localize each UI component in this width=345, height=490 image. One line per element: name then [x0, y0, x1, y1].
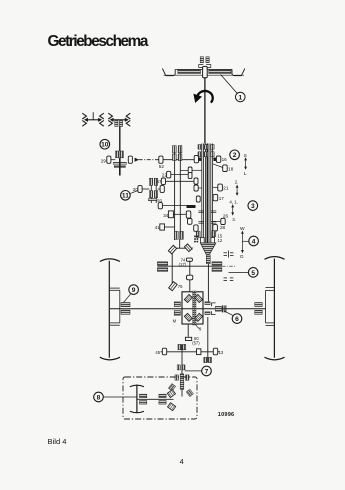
selector square 34 — [168, 211, 173, 218]
svg-text:41: 41 — [155, 225, 161, 230]
shafts — [150, 178, 152, 203]
bundle shaft lines — [201, 144, 203, 244]
svg-text:10996: 10996 — [218, 412, 235, 418]
beam top line — [176, 68, 233, 70]
joint B right arrowhead — [125, 118, 129, 122]
rotation arrow — [197, 91, 213, 103]
right lower shaft — [207, 317, 209, 363]
shaft below diff — [187, 324, 189, 337]
PTO bevel lower — [167, 403, 175, 411]
wire row a — [180, 169, 188, 171]
circled 6 — [232, 314, 242, 324]
end bracket left — [162, 69, 175, 76]
joint B chevron right bottom — [126, 120, 130, 126]
right wheel tyre — [265, 257, 285, 360]
sleeve 45 — [162, 348, 166, 355]
left sleeve row b — [188, 173, 192, 179]
joint A shaft — [86, 119, 101, 121]
sleeve mid left c — [194, 225, 198, 231]
svg-text:52: 52 — [159, 164, 165, 169]
axle line — [110, 308, 266, 310]
gear right of bundle bottom — [212, 231, 216, 237]
input coupling hatched blocks — [200, 57, 203, 63]
callout 9 — [124, 294, 132, 303]
gear pair D — [175, 375, 178, 380]
circled 3 — [248, 201, 258, 211]
svg-text:3.: 3. — [232, 217, 236, 222]
wire 26 — [213, 220, 221, 222]
sleeve left of cluster 10 — [107, 156, 111, 163]
diff clutch block on axle — [215, 306, 221, 311]
vert shaft stub in box — [181, 389, 183, 396]
sleeve 28 — [213, 225, 218, 231]
arrowhead on PTO line — [135, 158, 139, 162]
bundle tick bars — [198, 210, 204, 212]
diff bevel TL — [184, 295, 192, 303]
sleeve 18 — [223, 165, 228, 172]
PTO dash-dot extension — [222, 265, 236, 267]
bundle top gear rects row1 — [198, 145, 202, 150]
gears row2 — [149, 191, 152, 198]
joint A chevron left top — [82, 113, 86, 119]
dash clutch upper — [224, 251, 234, 258]
bundle top gear rects row2 — [198, 152, 202, 157]
svg-text:(17): (17) — [179, 262, 187, 267]
PTO gear left upper — [157, 262, 167, 265]
layshaft A — [174, 150, 176, 240]
shaft down from joint B — [119, 126, 121, 151]
wire to circle 4 — [242, 240, 249, 242]
sleeve right of cluster 11 — [160, 186, 164, 193]
wire cluster to right sleeve — [158, 188, 160, 190]
PTO horizontal shaft — [137, 398, 174, 400]
thick hatched shaft — [180, 374, 184, 389]
circled 5 — [248, 268, 258, 278]
PTO gear right upper — [212, 262, 222, 265]
left axle gear lower — [121, 310, 130, 314]
PTO gear right lower — [212, 268, 222, 272]
svg-text:G: G — [240, 254, 244, 260]
gear left of bundle bottom — [196, 231, 200, 237]
layshaft lower gear pair — [175, 231, 179, 239]
bevel right of T — [184, 244, 192, 252]
sleeve mid left b — [188, 219, 193, 225]
diff clutch plate pack — [222, 305, 227, 312]
wire 20 to cluster — [142, 188, 149, 190]
wire to circle 7 — [185, 370, 202, 372]
left axle gear upper — [121, 303, 130, 307]
joint B chevron left top — [108, 113, 112, 119]
svg-text:8: 8 — [97, 395, 101, 402]
sleeve 21 — [218, 184, 223, 191]
PTO stub shaft — [136, 385, 138, 413]
wire 52 to bundle — [163, 159, 194, 161]
dotted clutch 15 12 — [194, 236, 198, 243]
sleeve on diff input — [187, 275, 193, 280]
svg-text:M: M — [173, 319, 177, 324]
svg-text:51: 51 — [157, 198, 163, 203]
left diff gear lower — [174, 311, 180, 316]
svg-text:34: 34 — [163, 213, 169, 218]
diff clutch hatched small upper — [205, 302, 210, 305]
PTO bevel upper — [167, 390, 175, 398]
PTO gear a lower — [140, 401, 147, 405]
bearing rects above cone — [201, 237, 205, 243]
pinion hatched stub — [206, 255, 210, 264]
sleeve right of cluster 10 — [128, 156, 132, 163]
svg-text:6: 6 — [235, 316, 239, 323]
left lower shaft — [181, 345, 183, 375]
beam bottom line — [164, 74, 245, 76]
sleeve 52 — [159, 156, 163, 163]
diff clutch hatched small lower — [205, 312, 210, 315]
circled 4 — [249, 236, 259, 246]
wire bevel to bevel 75 — [171, 253, 173, 283]
sleeve 16 — [216, 156, 220, 162]
bevel gear 75 — [169, 282, 178, 291]
circled 11 — [121, 191, 131, 201]
circled 10 — [100, 139, 110, 149]
layshaft top gears row1 — [173, 146, 177, 153]
joint B shaft — [111, 119, 128, 121]
svg-text:(57): (57) — [192, 341, 200, 346]
callout 6 — [224, 311, 234, 316]
sleeve 21 wire — [213, 187, 218, 189]
circled 1 — [236, 92, 246, 102]
svg-text:12: 12 — [218, 238, 223, 243]
beam hatched bar right — [209, 70, 231, 74]
T bar under layshaft — [172, 247, 188, 249]
diff box — [182, 292, 203, 324]
wire 51 row — [162, 205, 186, 207]
joint B chevron right top — [126, 113, 130, 119]
svg-text:4: 4 — [180, 457, 184, 466]
joint B chevron left bottom — [108, 120, 112, 126]
svg-text:29: 29 — [101, 158, 107, 163]
svg-text:5: 5 — [251, 270, 255, 277]
joint A right arrowhead — [98, 118, 102, 122]
svg-text:1: 1 — [238, 95, 242, 102]
sleeve 17 — [213, 194, 218, 200]
joint B gearbox blocks — [115, 121, 118, 127]
left sleeve row a — [188, 167, 192, 173]
wire sleeve to shaft — [111, 159, 115, 161]
sleeve mid left a — [186, 211, 191, 218]
bevel on vert shaft left — [168, 383, 175, 391]
diff bevel BR — [195, 313, 203, 321]
sleeve on diff input top — [186, 258, 192, 261]
svg-text:28: 28 — [220, 225, 226, 230]
layshaft top gears row2 — [173, 154, 177, 161]
circled 9 — [129, 285, 139, 295]
center hub — [203, 66, 208, 77]
sleeve 22 — [167, 171, 171, 178]
svg-text:Getriebeschema: Getriebeschema — [48, 33, 149, 50]
callout 11 — [130, 191, 138, 194]
diff center bar right — [195, 291, 196, 325]
right axle gear lower — [255, 310, 262, 314]
diff bevel TR — [195, 295, 203, 303]
svg-text:2.: 2. — [235, 180, 239, 185]
svg-text:13: 13 — [219, 350, 224, 355]
PTO gear a upper — [140, 394, 147, 398]
bevel on vert shaft right — [186, 389, 193, 397]
svg-text:11: 11 — [122, 193, 129, 200]
lower horizontal line — [161, 351, 220, 353]
joint A chevron right top — [100, 113, 104, 119]
diff bevel BL — [184, 313, 192, 321]
right rim bracket — [266, 288, 275, 326]
joint A chevron left bottom — [82, 120, 86, 126]
tooth nubs 52 row — [198, 158, 201, 161]
svg-text:7: 7 — [191, 247, 193, 251]
svg-text:Bild 4: Bild 4 — [48, 437, 67, 446]
bevel left of T — [168, 245, 176, 254]
wire 47 row — [166, 180, 194, 182]
callout 9 diff — [196, 324, 200, 329]
svg-text:17: 17 — [219, 196, 225, 201]
sleeve 13 — [213, 348, 217, 355]
left wheel tyre — [100, 259, 120, 360]
sleeve 16 wire — [213, 157, 217, 159]
circled 8 — [94, 392, 104, 402]
gear pair on shaft 10 — [115, 151, 119, 158]
PTO gear left lower — [157, 268, 167, 272]
svg-text:75: 75 — [178, 284, 183, 289]
diff input shaft — [189, 261, 191, 292]
selector square 41 — [160, 224, 165, 230]
gear pair B — [204, 357, 207, 362]
wire 18 diagonal — [213, 164, 223, 168]
svg-text:9: 9 — [132, 287, 136, 294]
layshaft B tail — [179, 239, 181, 248]
sleeve 26 — [221, 218, 225, 224]
right axle gear upper — [255, 303, 262, 307]
wire 22 row — [171, 174, 189, 176]
svg-text:3: 3 — [251, 203, 255, 210]
diff clutch brackets — [212, 303, 216, 315]
bearing black — [185, 337, 191, 340]
joint A left arrowhead — [84, 118, 88, 122]
PTO stub top cap — [130, 385, 144, 387]
left diff gear upper — [174, 302, 180, 307]
layshaft B — [179, 150, 181, 240]
left sleeve row c — [194, 178, 198, 184]
dash clutch lower — [224, 278, 234, 281]
dash-dot PTO line to 52 — [139, 159, 159, 161]
left sleeve row d — [194, 185, 198, 191]
svg-text:21: 21 — [223, 186, 229, 191]
sleeve 51 — [158, 203, 162, 209]
wire 8 to PTO — [103, 396, 137, 398]
sleeve 20 — [138, 186, 142, 193]
joint B left arrowhead — [110, 118, 114, 122]
wire 41 row — [164, 226, 174, 228]
svg-text:2: 2 — [233, 152, 237, 159]
pinion shaft down — [207, 264, 209, 304]
wire row d — [198, 187, 202, 189]
shaft 10 lower stub — [119, 158, 121, 176]
circled 2 — [230, 150, 240, 160]
circled 5 wire — [229, 271, 249, 273]
beam hatched bar left — [178, 70, 201, 74]
svg-text:18: 18 — [228, 167, 234, 172]
joint A chevron right bottom — [100, 120, 104, 126]
step bracket right — [206, 65, 211, 68]
svg-text:4: 4 — [252, 238, 256, 245]
gear pair C — [177, 365, 180, 370]
step bracket left — [199, 65, 204, 68]
svg-text:16: 16 — [222, 157, 228, 162]
hub flange bars — [113, 162, 126, 164]
gear pair A — [178, 344, 181, 349]
svg-text:4, 1.: 4, 1. — [229, 199, 238, 204]
diff center bar left — [193, 291, 194, 325]
svg-text:45: 45 — [155, 350, 160, 355]
gears row1 — [149, 178, 152, 185]
arrow 4-3 — [232, 205, 234, 215]
svg-text:10: 10 — [101, 142, 109, 149]
circled 7 — [202, 366, 212, 376]
sleeve 47 — [161, 178, 165, 185]
wire 34 row — [173, 213, 187, 215]
callout line to 1 — [221, 75, 238, 94]
PTO horizontal line — [157, 265, 222, 267]
PTO gear b upper — [159, 394, 166, 398]
cone (bevel pinion funnel) — [200, 243, 216, 254]
joint A center tick — [92, 112, 94, 120]
left sleeve row e — [196, 196, 200, 202]
center square lower — [197, 349, 201, 355]
end bracket right — [232, 69, 245, 76]
svg-text:7: 7 — [205, 368, 209, 375]
svg-text:L: L — [244, 171, 247, 177]
sleeve on bundle left (52 row) — [194, 155, 198, 162]
PTO stub bottom cap — [130, 411, 144, 413]
PTO gear b lower — [159, 401, 166, 405]
main input shaft — [204, 78, 206, 144]
left rim bracket — [110, 288, 120, 325]
